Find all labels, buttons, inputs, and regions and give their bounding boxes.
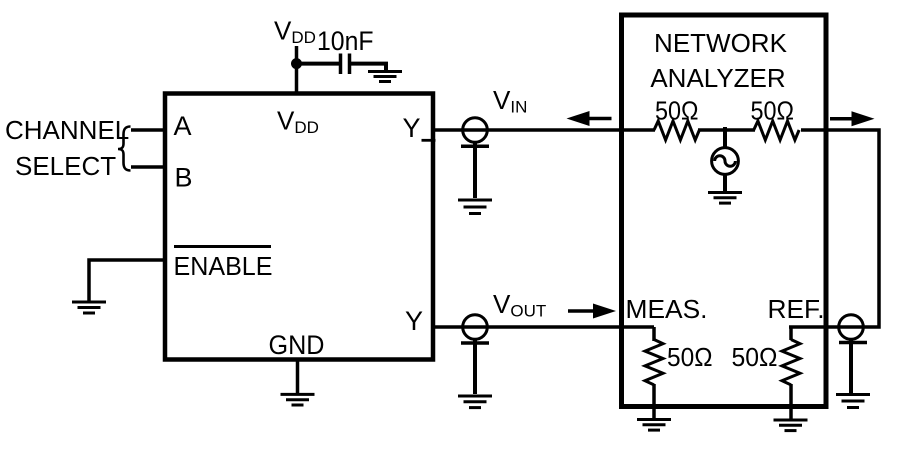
probe V_IN T-bar and stem xyxy=(461,143,489,198)
wire ENABLE pin xyxy=(89,260,165,301)
svg-text:Y: Y xyxy=(405,306,423,336)
ground (V_IN probe) xyxy=(458,200,492,214)
ground (REF probe) xyxy=(836,395,870,408)
svg-text:CHANNEL: CHANNEL xyxy=(5,115,129,145)
probe V_IN circle xyxy=(463,118,488,143)
arrow (toward MEAS, pointing right) xyxy=(568,304,616,319)
IC U1 box xyxy=(165,94,433,360)
ground (ENABLE) xyxy=(72,302,106,313)
svg-text:ENABLE: ENABLE xyxy=(174,251,273,281)
junction and stem to source xyxy=(723,127,727,148)
probe V_OUT T-bar and stem xyxy=(461,340,489,394)
wire Y output to MEAS xyxy=(433,325,654,329)
stem below box (REF resistor) xyxy=(789,407,793,419)
svg-text:50Ω: 50Ω xyxy=(655,96,699,126)
probe (REF side) circle xyxy=(839,315,864,340)
wire between resistors xyxy=(698,128,755,132)
svg-text:REF.: REF. xyxy=(768,294,825,324)
wire MEAS corner down xyxy=(652,327,656,341)
wire pin B xyxy=(131,165,165,169)
ENABLE pin label (active-low overline) xyxy=(174,247,273,282)
wire capacitor to ground xyxy=(350,64,387,70)
network analyzer box xyxy=(622,15,827,407)
svg-text:10nF: 10nF xyxy=(317,26,374,56)
resistor R3 50 ohm (MEAS termination, vertical) xyxy=(645,340,663,408)
svg-text:MEAS.: MEAS. xyxy=(626,294,708,324)
NETWORK ANALYZER label xyxy=(650,28,787,93)
CHANNEL SELECT net label xyxy=(5,115,129,181)
arrow (toward REF, pointing right) xyxy=(830,111,875,126)
ground (REF resistor) xyxy=(774,420,808,431)
svg-text:B: B xyxy=(175,163,193,193)
wire VDD to capacitor xyxy=(297,62,341,66)
wire GND stem xyxy=(296,359,300,393)
probe V_OUT circle xyxy=(463,315,488,340)
stem source to ground xyxy=(723,174,727,192)
wire VDD stem xyxy=(295,46,299,95)
junction dot VDD node xyxy=(291,58,302,69)
brace xyxy=(118,127,131,171)
wire Y_ output to analyzer xyxy=(433,128,655,132)
resistor R1 50 ohm (source left) xyxy=(654,121,699,140)
svg-text:SELECT: SELECT xyxy=(15,151,116,181)
svg-text:50Ω: 50Ω xyxy=(667,342,713,372)
svg-text:50Ω: 50Ω xyxy=(751,96,795,126)
ground (V_OUT probe) xyxy=(458,396,492,408)
svg-text:NETWORK: NETWORK xyxy=(654,28,788,58)
svg-text:Y: Y xyxy=(403,113,421,143)
resistor R4 50 ohm (REF termination, vertical) xyxy=(782,327,800,407)
svg-text:GND: GND xyxy=(269,330,325,360)
wire pin A xyxy=(131,128,165,132)
capacitor C1 plates xyxy=(341,54,350,75)
ground (GND) xyxy=(281,394,315,405)
probe REF T-bar and stem xyxy=(839,340,867,393)
ground (C1) xyxy=(368,72,402,82)
svg-text:ANALYZER: ANALYZER xyxy=(650,63,785,93)
resistor R2 50 ohm (source right) xyxy=(754,121,799,140)
svg-text:A: A xyxy=(174,111,192,141)
source V1 (sine source) xyxy=(712,148,739,175)
svg-text:50Ω: 50Ω xyxy=(732,342,778,372)
wire R2 to right corner, down, and left to REF xyxy=(789,130,879,327)
ground (MEAS resistor) xyxy=(637,420,671,431)
stem below box (MEAS resistor) xyxy=(652,407,656,418)
ground (source) xyxy=(708,193,742,204)
arrow (signal toward IC, pointing left) xyxy=(567,111,612,126)
